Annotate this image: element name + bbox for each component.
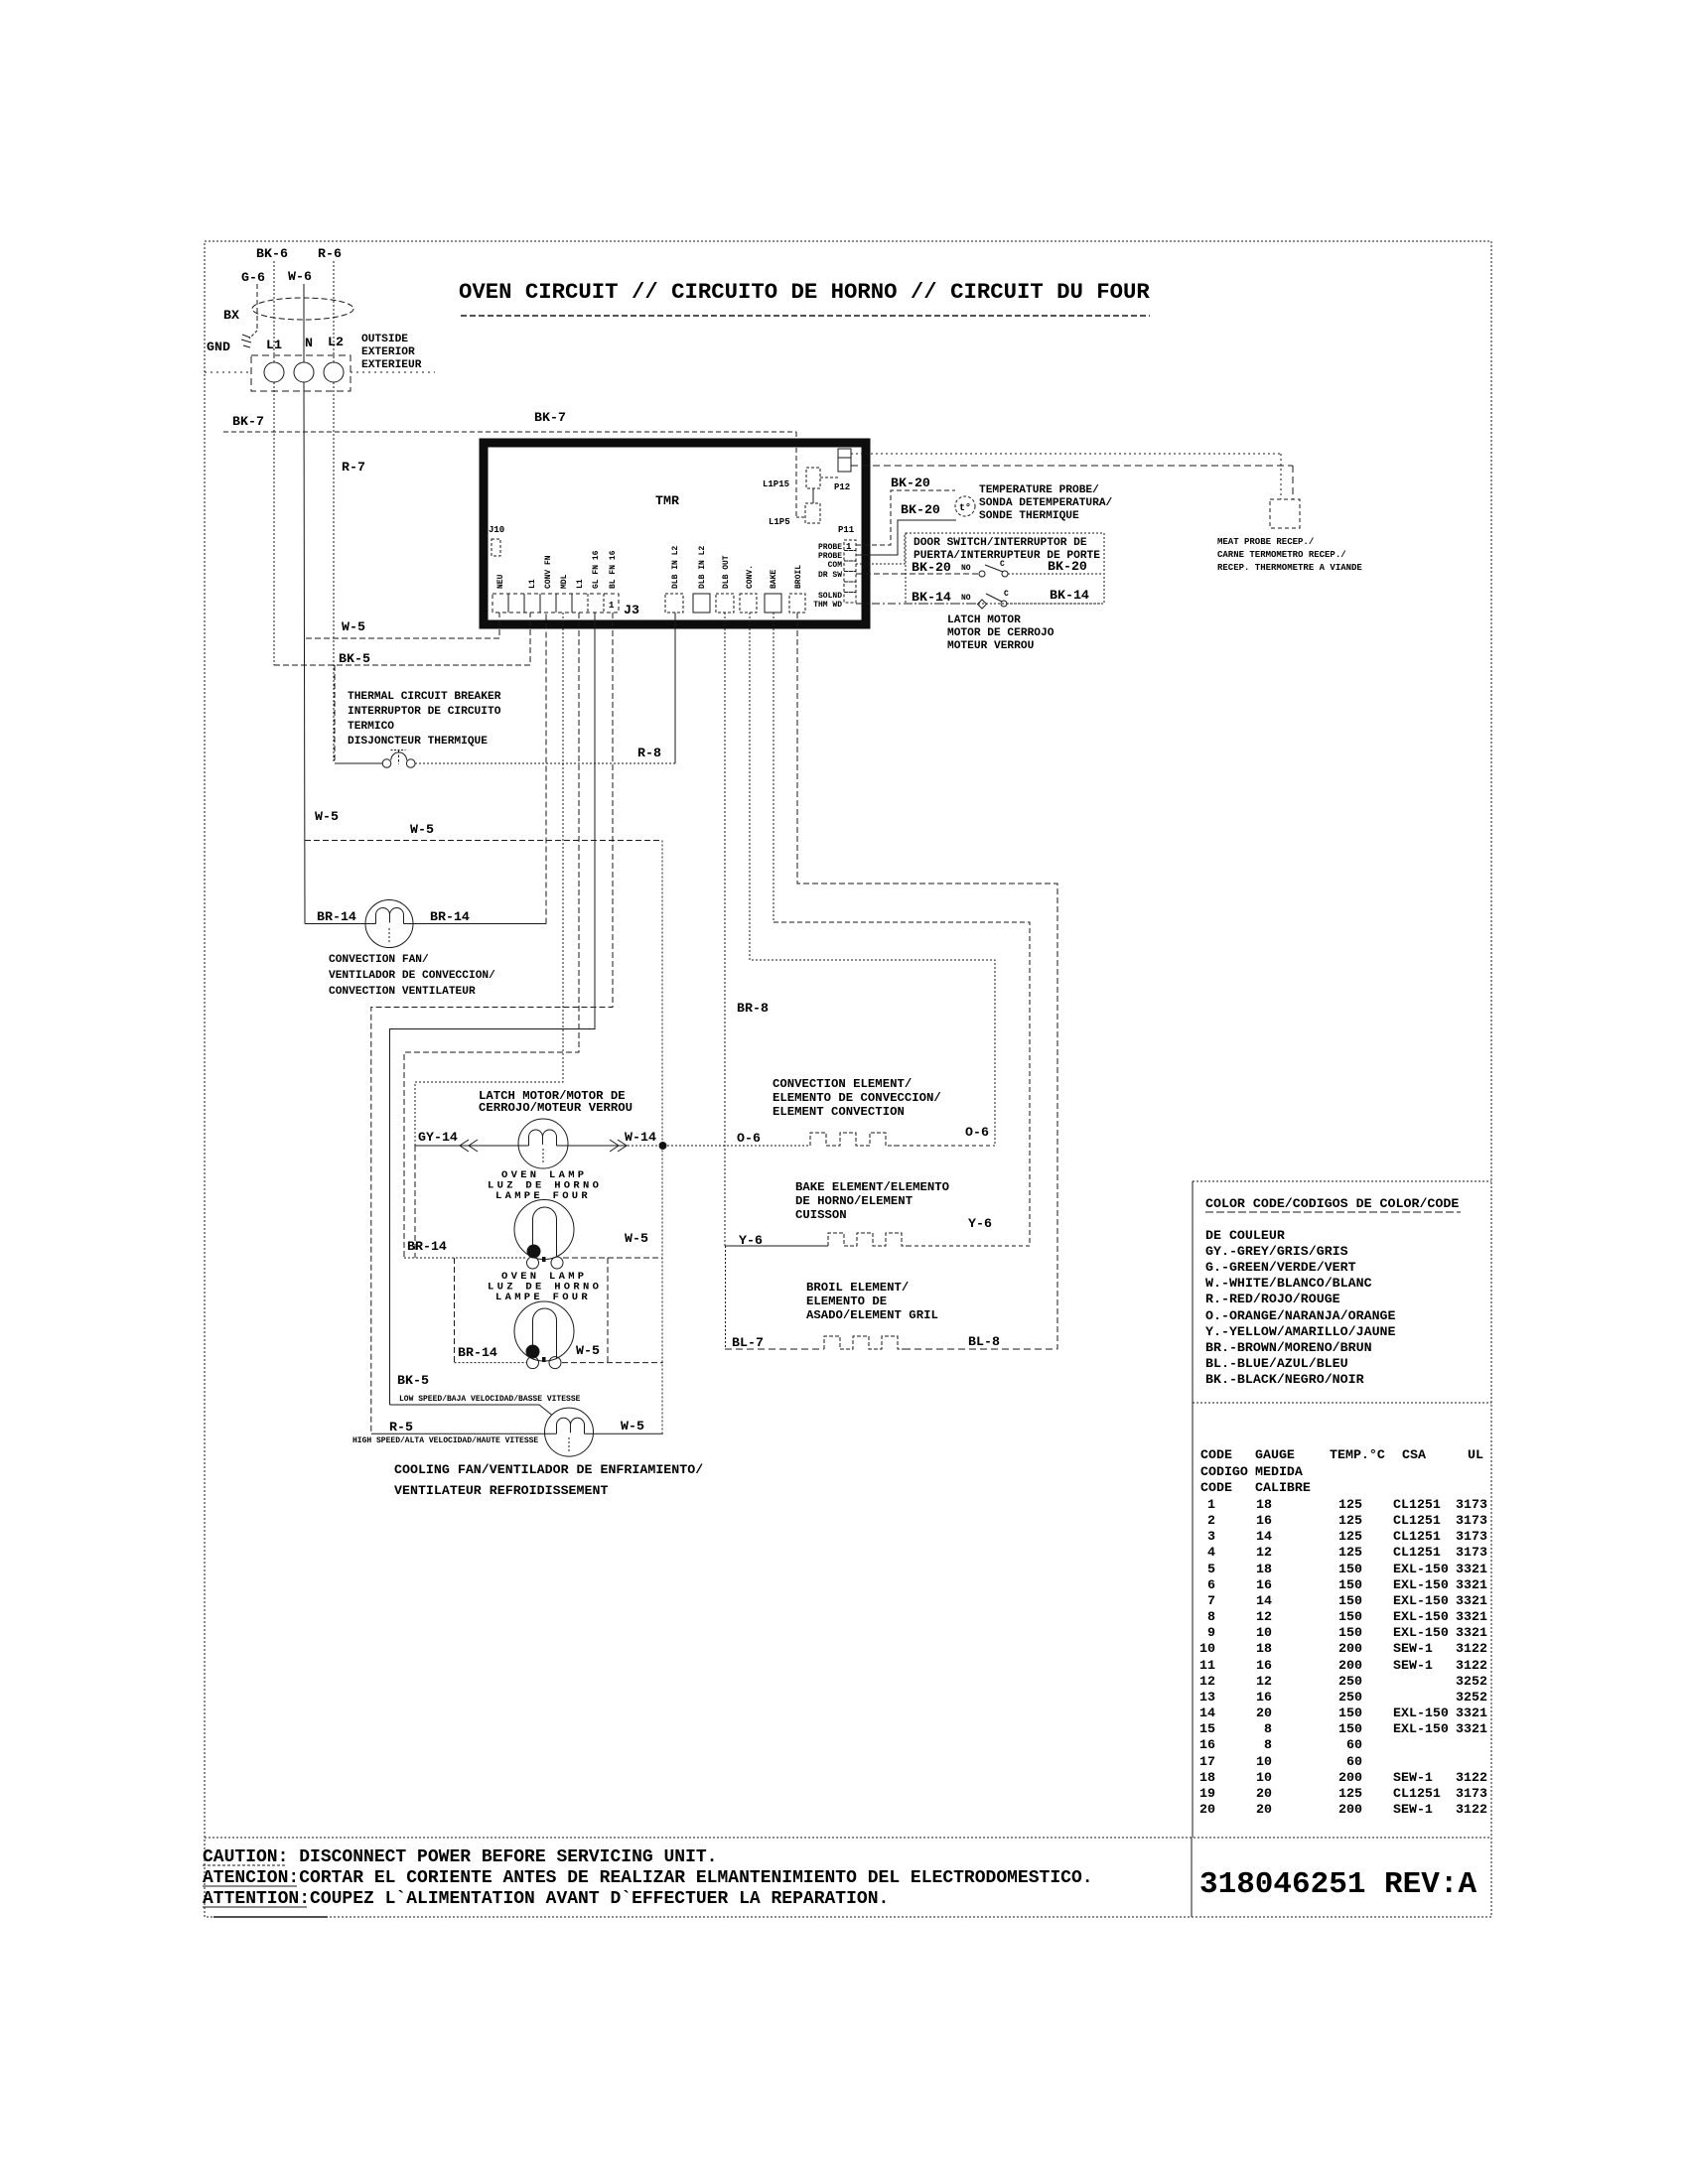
svg-text:CONVECTION VENTILATEUR: CONVECTION VENTILATEUR (329, 986, 476, 998)
svg-text:8: 8 (1207, 1609, 1215, 1624)
svg-text:BK-6: BK-6 (256, 246, 288, 261)
svg-text:DE COULEUR: DE COULEUR (1205, 1228, 1285, 1243)
svg-text:COOLING FAN/VENTILADOR DE ENFR: COOLING FAN/VENTILADOR DE ENFRIAMIENTO/ (394, 1462, 703, 1477)
svg-text:10: 10 (1256, 1770, 1272, 1785)
svg-text:EXL-150: EXL-150 (1393, 1593, 1449, 1608)
svg-text:Y.-YELLOW/AMARILLO/JAUNE: Y.-YELLOW/AMARILLO/JAUNE (1205, 1324, 1396, 1339)
svg-text:60: 60 (1346, 1754, 1362, 1769)
svg-text:HIGH SPEED/ALTA VELOCIDAD/HAUT: HIGH SPEED/ALTA VELOCIDAD/HAUTE VITESSE (352, 1436, 538, 1445)
svg-text:3321: 3321 (1456, 1593, 1487, 1608)
svg-text:3173: 3173 (1456, 1497, 1487, 1512)
svg-text:BL FN 16: BL FN 16 (609, 550, 618, 589)
svg-text:16: 16 (1256, 1690, 1272, 1705)
svg-text:GND: GND (207, 340, 230, 354)
svg-text:EXTERIEUR: EXTERIEUR (361, 359, 422, 371)
svg-text:14: 14 (1256, 1593, 1272, 1608)
svg-text:18: 18 (1199, 1770, 1215, 1785)
svg-text:GAUGE: GAUGE (1255, 1447, 1295, 1462)
svg-text:W-5: W-5 (342, 619, 365, 634)
svg-text:3122: 3122 (1456, 1770, 1487, 1785)
svg-text:125: 125 (1338, 1513, 1362, 1528)
svg-text:9: 9 (1207, 1625, 1215, 1640)
svg-text:12: 12 (1256, 1609, 1272, 1624)
svg-text:150: 150 (1338, 1721, 1362, 1736)
svg-text:1: 1 (846, 542, 852, 552)
svg-text:3122: 3122 (1456, 1641, 1487, 1656)
svg-text:OUTSIDE: OUTSIDE (361, 334, 408, 345)
svg-text:BK-14: BK-14 (912, 590, 951, 605)
svg-text:BR-14: BR-14 (430, 909, 470, 924)
svg-text:150: 150 (1338, 1593, 1362, 1608)
svg-text:PROBE: PROBE (818, 543, 842, 552)
svg-text:20: 20 (1256, 1786, 1272, 1801)
svg-text:200: 200 (1338, 1641, 1362, 1656)
svg-text:3252: 3252 (1456, 1674, 1487, 1689)
svg-text:SEW-1: SEW-1 (1393, 1658, 1433, 1673)
svg-text:4: 4 (1207, 1545, 1215, 1560)
svg-text:BK-5: BK-5 (397, 1373, 429, 1388)
svg-text:G.-GREEN/VERDE/VERT: G.-GREEN/VERDE/VERT (1205, 1260, 1356, 1275)
svg-text:CL1251: CL1251 (1393, 1529, 1441, 1544)
svg-text:BL.-BLUE/AZUL/BLEU: BL.-BLUE/AZUL/BLEU (1205, 1356, 1348, 1371)
svg-text:VENTILATEUR REFROIDISSEMENT: VENTILATEUR REFROIDISSEMENT (394, 1483, 608, 1498)
svg-text:3321: 3321 (1456, 1625, 1487, 1640)
svg-text:DOOR SWITCH/INTERRUPTOR DE: DOOR SWITCH/INTERRUPTOR DE (914, 537, 1087, 549)
svg-text:11: 11 (1199, 1658, 1215, 1673)
svg-text:3122: 3122 (1456, 1802, 1487, 1817)
svg-text:DLB IN L2: DLB IN L2 (698, 546, 707, 589)
svg-text:BK-5: BK-5 (339, 651, 370, 666)
svg-text:8: 8 (1264, 1737, 1272, 1752)
svg-text:6: 6 (1207, 1577, 1215, 1592)
svg-text:BAKE: BAKE (770, 570, 778, 589)
svg-text:RECEP. THERMOMETRE A VIANDE: RECEP. THERMOMETRE A VIANDE (1217, 563, 1362, 573)
svg-text:15: 15 (1199, 1721, 1215, 1736)
svg-text:INTERRUPTOR DE CIRCUITO: INTERRUPTOR DE CIRCUITO (348, 706, 501, 718)
svg-text:BROIL ELEMENT/: BROIL ELEMENT/ (806, 1281, 909, 1295)
svg-text:L2: L2 (328, 335, 344, 349)
svg-text:18: 18 (1256, 1497, 1272, 1512)
svg-text:SONDE THERMIQUE: SONDE THERMIQUE (979, 510, 1079, 522)
svg-text:3: 3 (1207, 1529, 1215, 1544)
svg-text:BR.-BROWN/MORENO/BRUN: BR.-BROWN/MORENO/BRUN (1205, 1340, 1372, 1355)
svg-text:BR-14: BR-14 (317, 909, 356, 924)
svg-text:14: 14 (1199, 1706, 1215, 1720)
svg-text:LAMPE FOUR: LAMPE FOUR (495, 1190, 591, 1202)
svg-text:OVEN CIRCUIT // CIRCUITO DE HO: OVEN CIRCUIT // CIRCUITO DE HORNO // CIR… (459, 279, 1150, 305)
svg-text:CODE: CODE (1200, 1447, 1232, 1462)
svg-text:3321: 3321 (1456, 1577, 1487, 1592)
svg-text:8: 8 (1264, 1721, 1272, 1736)
svg-text:16: 16 (1199, 1737, 1215, 1752)
svg-text:BR-8: BR-8 (737, 1001, 769, 1016)
svg-text:1: 1 (609, 601, 615, 611)
svg-text:3173: 3173 (1456, 1545, 1487, 1560)
svg-text:W-5: W-5 (410, 822, 434, 837)
svg-text:18: 18 (1256, 1641, 1272, 1656)
svg-text:CODE: CODE (1200, 1480, 1232, 1495)
svg-text:R-7: R-7 (342, 460, 365, 475)
svg-text:CALIBRE: CALIBRE (1255, 1480, 1311, 1495)
svg-text:LOW SPEED/BAJA VELOCIDAD/BASSE: LOW SPEED/BAJA VELOCIDAD/BASSE VITESSE (399, 1395, 581, 1404)
svg-text:CL1251: CL1251 (1393, 1497, 1441, 1512)
svg-text:R-6: R-6 (318, 246, 342, 261)
svg-text:CL1251: CL1251 (1393, 1786, 1441, 1801)
svg-text:NEU: NEU (496, 574, 505, 589)
svg-text:3173: 3173 (1456, 1513, 1487, 1528)
svg-text:SEW-1: SEW-1 (1393, 1770, 1433, 1785)
svg-text:19: 19 (1199, 1786, 1215, 1801)
svg-text:THM WD: THM WD (813, 601, 842, 610)
svg-text:DE HORNO/ELEMENT: DE HORNO/ELEMENT (795, 1194, 914, 1208)
svg-text:250: 250 (1338, 1690, 1362, 1705)
svg-text:ATENCION:CORTAR EL CORIENTE AN: ATENCION:CORTAR EL CORIENTE ANTES DE REA… (203, 1868, 1093, 1888)
svg-text:150: 150 (1338, 1609, 1362, 1624)
svg-text:NO: NO (961, 594, 971, 603)
svg-text:W.-WHITE/BLANCO/BLANC: W.-WHITE/BLANCO/BLANC (1205, 1276, 1372, 1291)
svg-text:t°: t° (959, 502, 971, 514)
svg-text:200: 200 (1338, 1658, 1362, 1673)
svg-text:16: 16 (1256, 1577, 1272, 1592)
svg-text:BK-14: BK-14 (1050, 588, 1089, 603)
svg-text:12: 12 (1256, 1545, 1272, 1560)
svg-text:3321: 3321 (1456, 1721, 1487, 1736)
svg-text:EXTERIOR: EXTERIOR (361, 346, 415, 358)
svg-text:BL-8: BL-8 (968, 1334, 1000, 1349)
svg-text:3173: 3173 (1456, 1786, 1487, 1801)
svg-text:G-6: G-6 (241, 270, 265, 285)
svg-text:14: 14 (1256, 1529, 1272, 1544)
svg-text:L1: L1 (576, 579, 585, 589)
svg-text:W-5: W-5 (576, 1343, 600, 1358)
svg-text:L1P5: L1P5 (769, 517, 790, 527)
svg-text:DLB IN L2: DLB IN L2 (671, 546, 680, 589)
svg-text:CONV.: CONV. (746, 565, 755, 589)
svg-text:CSA: CSA (1402, 1447, 1426, 1462)
svg-text:LAMPE FOUR: LAMPE FOUR (495, 1292, 591, 1303)
svg-text:250: 250 (1338, 1674, 1362, 1689)
svg-text:TMR: TMR (655, 493, 679, 508)
svg-text:BR-14: BR-14 (407, 1239, 447, 1254)
svg-text:20: 20 (1199, 1802, 1215, 1817)
svg-text:DISJONCTEUR THERMIQUE: DISJONCTEUR THERMIQUE (348, 736, 488, 748)
svg-text:W-5: W-5 (315, 809, 339, 824)
svg-text:THERMAL CIRCUIT BREAKER: THERMAL CIRCUIT BREAKER (348, 691, 501, 703)
svg-text:W-6: W-6 (288, 269, 312, 284)
svg-text:ATTENTION:COUPEZ L`ALIMENTATIO: ATTENTION:COUPEZ L`ALIMENTATION AVANT D`… (203, 1889, 889, 1909)
svg-text:EXL-150: EXL-150 (1393, 1721, 1449, 1736)
svg-text:TERMICO: TERMICO (348, 721, 394, 733)
svg-text:MEDIDA: MEDIDA (1255, 1464, 1303, 1479)
svg-text:PROBE: PROBE (818, 552, 842, 561)
svg-text:12: 12 (1256, 1674, 1272, 1689)
svg-text:GY-14: GY-14 (418, 1130, 458, 1145)
svg-text:BROIL: BROIL (794, 565, 803, 589)
svg-text:CONVECTION ELEMENT/: CONVECTION ELEMENT/ (773, 1077, 912, 1091)
svg-text:BR-14: BR-14 (458, 1345, 497, 1360)
svg-text:7: 7 (1207, 1593, 1215, 1608)
svg-text:17: 17 (1199, 1754, 1215, 1769)
svg-text:150: 150 (1338, 1625, 1362, 1640)
svg-text:EXL-150: EXL-150 (1393, 1625, 1449, 1640)
svg-text:Y-6: Y-6 (968, 1216, 992, 1231)
svg-text:BK.-BLACK/NEGRO/NOIR: BK.-BLACK/NEGRO/NOIR (1205, 1372, 1364, 1387)
svg-text:5: 5 (1207, 1562, 1215, 1576)
svg-text:16: 16 (1256, 1513, 1272, 1528)
svg-text:200: 200 (1338, 1802, 1362, 1817)
svg-text:3321: 3321 (1456, 1609, 1487, 1624)
svg-text:MEAT PROBE RECEP./: MEAT PROBE RECEP./ (1217, 537, 1314, 547)
svg-text:18: 18 (1256, 1562, 1272, 1576)
svg-text:CERROJO/MOTEUR VERROU: CERROJO/MOTEUR VERROU (479, 1101, 633, 1115)
svg-text:13: 13 (1199, 1690, 1215, 1705)
svg-text:MOTOR DE CERROJO: MOTOR DE CERROJO (947, 627, 1055, 639)
svg-text:PUERTA/INTERRUPTEUR DE PORTE: PUERTA/INTERRUPTEUR DE PORTE (914, 550, 1100, 562)
svg-text:3122: 3122 (1456, 1658, 1487, 1673)
svg-text:P11: P11 (838, 525, 855, 535)
svg-text:60: 60 (1346, 1737, 1362, 1752)
svg-text:10: 10 (1256, 1625, 1272, 1640)
svg-text:W-5: W-5 (621, 1419, 644, 1433)
svg-text:EXL-150: EXL-150 (1393, 1577, 1449, 1592)
svg-text:L1: L1 (266, 338, 282, 352)
svg-text:J3: J3 (624, 603, 639, 617)
svg-text:C: C (1004, 590, 1009, 599)
svg-text:W-14: W-14 (625, 1130, 656, 1145)
svg-text:CONVECTION FAN/: CONVECTION FAN/ (329, 954, 429, 966)
svg-text:VENTILADOR DE CONVECCION/: VENTILADOR DE CONVECCION/ (329, 970, 495, 982)
svg-text:BK-20: BK-20 (891, 476, 930, 490)
svg-text:SONDA DETEMPERATURA/: SONDA DETEMPERATURA/ (979, 497, 1113, 509)
svg-text:EXL-150: EXL-150 (1393, 1609, 1449, 1624)
svg-text:CAUTION: DISCONNECT POWER BEFO: CAUTION: DISCONNECT POWER BEFORE SERVICI… (203, 1847, 717, 1867)
svg-text:BK-20: BK-20 (901, 502, 940, 517)
svg-text:20: 20 (1256, 1802, 1272, 1817)
svg-text:EXL-150: EXL-150 (1393, 1706, 1449, 1720)
svg-text:SEW-1: SEW-1 (1393, 1802, 1433, 1817)
svg-text:150: 150 (1338, 1562, 1362, 1576)
svg-text:R-5: R-5 (389, 1420, 413, 1434)
svg-text:GL FN 16: GL FN 16 (592, 550, 601, 589)
svg-text:UL: UL (1468, 1447, 1483, 1462)
svg-text:J10: J10 (489, 525, 504, 535)
svg-text:O.-ORANGE/NARANJA/ORANGE: O.-ORANGE/NARANJA/ORANGE (1205, 1308, 1396, 1323)
svg-text:O-6: O-6 (737, 1131, 761, 1146)
svg-text:10: 10 (1199, 1641, 1215, 1656)
svg-text:125: 125 (1338, 1786, 1362, 1801)
svg-text:COLOR CODE/CODIGOS DE COLOR/CO: COLOR CODE/CODIGOS DE COLOR/CODE (1205, 1196, 1459, 1211)
svg-text:W-5: W-5 (625, 1231, 648, 1246)
svg-text:COM: COM (828, 561, 843, 570)
svg-text:P12: P12 (834, 482, 850, 492)
svg-text:TEMPERATURE PROBE/: TEMPERATURE PROBE/ (979, 484, 1099, 496)
svg-text:16: 16 (1256, 1658, 1272, 1673)
svg-text:10: 10 (1256, 1754, 1272, 1769)
svg-text:TEMP.°C: TEMP.°C (1330, 1447, 1385, 1462)
svg-text:CARNE TERMOMETRO RECEP./: CARNE TERMOMETRO RECEP./ (1217, 550, 1346, 560)
svg-text:SEW-1: SEW-1 (1393, 1641, 1433, 1656)
svg-text:ASADO/ELEMENT GRIL: ASADO/ELEMENT GRIL (806, 1308, 938, 1322)
svg-text:LATCH MOTOR: LATCH MOTOR (947, 614, 1021, 626)
svg-text:GY.-GREY/GRIS/GRIS: GY.-GREY/GRIS/GRIS (1205, 1244, 1348, 1259)
svg-text:R.-RED/ROJO/ROUGE: R.-RED/ROJO/ROUGE (1205, 1292, 1340, 1306)
svg-text:Y-6: Y-6 (739, 1233, 763, 1248)
svg-text:CONV FN: CONV FN (544, 555, 553, 589)
svg-text:DR SW: DR SW (818, 571, 842, 580)
svg-text:CL1251: CL1251 (1393, 1513, 1441, 1528)
svg-text:N: N (305, 336, 313, 350)
svg-text:150: 150 (1338, 1706, 1362, 1720)
svg-text:L1: L1 (528, 579, 537, 589)
svg-text:BK-7: BK-7 (232, 414, 264, 429)
svg-text:O-6: O-6 (965, 1125, 989, 1140)
svg-text:SOLND: SOLND (818, 592, 842, 601)
svg-text:1: 1 (1207, 1497, 1215, 1512)
svg-text:12: 12 (1199, 1674, 1215, 1689)
svg-text:ELEMENTO DE: ELEMENTO DE (806, 1295, 887, 1308)
svg-text:CODIGO: CODIGO (1200, 1464, 1248, 1479)
svg-text:NO: NO (961, 564, 971, 573)
svg-text:125: 125 (1338, 1545, 1362, 1560)
svg-text:CL1251: CL1251 (1393, 1545, 1441, 1560)
svg-text:3173: 3173 (1456, 1529, 1487, 1544)
svg-text:200: 200 (1338, 1770, 1362, 1785)
svg-text:EXL-150: EXL-150 (1393, 1562, 1449, 1576)
svg-text:BK-7: BK-7 (534, 410, 566, 425)
svg-text:ELEMENT CONVECTION: ELEMENT CONVECTION (773, 1105, 905, 1119)
svg-text:L1P15: L1P15 (763, 479, 789, 489)
svg-text:R-8: R-8 (637, 746, 661, 760)
svg-text:BAKE ELEMENT/ELEMENTO: BAKE ELEMENT/ELEMENTO (795, 1180, 949, 1194)
svg-text:2: 2 (1207, 1513, 1215, 1528)
svg-text:BK-20: BK-20 (912, 560, 951, 575)
svg-text:3321: 3321 (1456, 1706, 1487, 1720)
svg-text:318046251 REV:A: 318046251 REV:A (1199, 1867, 1477, 1902)
svg-text:BL-7: BL-7 (732, 1335, 764, 1350)
svg-text:20: 20 (1256, 1706, 1272, 1720)
svg-text:125: 125 (1338, 1497, 1362, 1512)
svg-text:CUISSON: CUISSON (795, 1208, 847, 1222)
svg-text:MDL: MDL (560, 574, 569, 589)
svg-text:150: 150 (1338, 1577, 1362, 1592)
svg-text:125: 125 (1338, 1529, 1362, 1544)
svg-text:ELEMENTO DE CONVECCION/: ELEMENTO DE CONVECCION/ (773, 1091, 941, 1105)
svg-text:DLB OUT: DLB OUT (722, 555, 731, 589)
svg-text:MOTEUR VERROU: MOTEUR VERROU (947, 640, 1035, 652)
svg-text:3321: 3321 (1456, 1562, 1487, 1576)
svg-text:3252: 3252 (1456, 1690, 1487, 1705)
svg-text:BX: BX (223, 308, 239, 323)
